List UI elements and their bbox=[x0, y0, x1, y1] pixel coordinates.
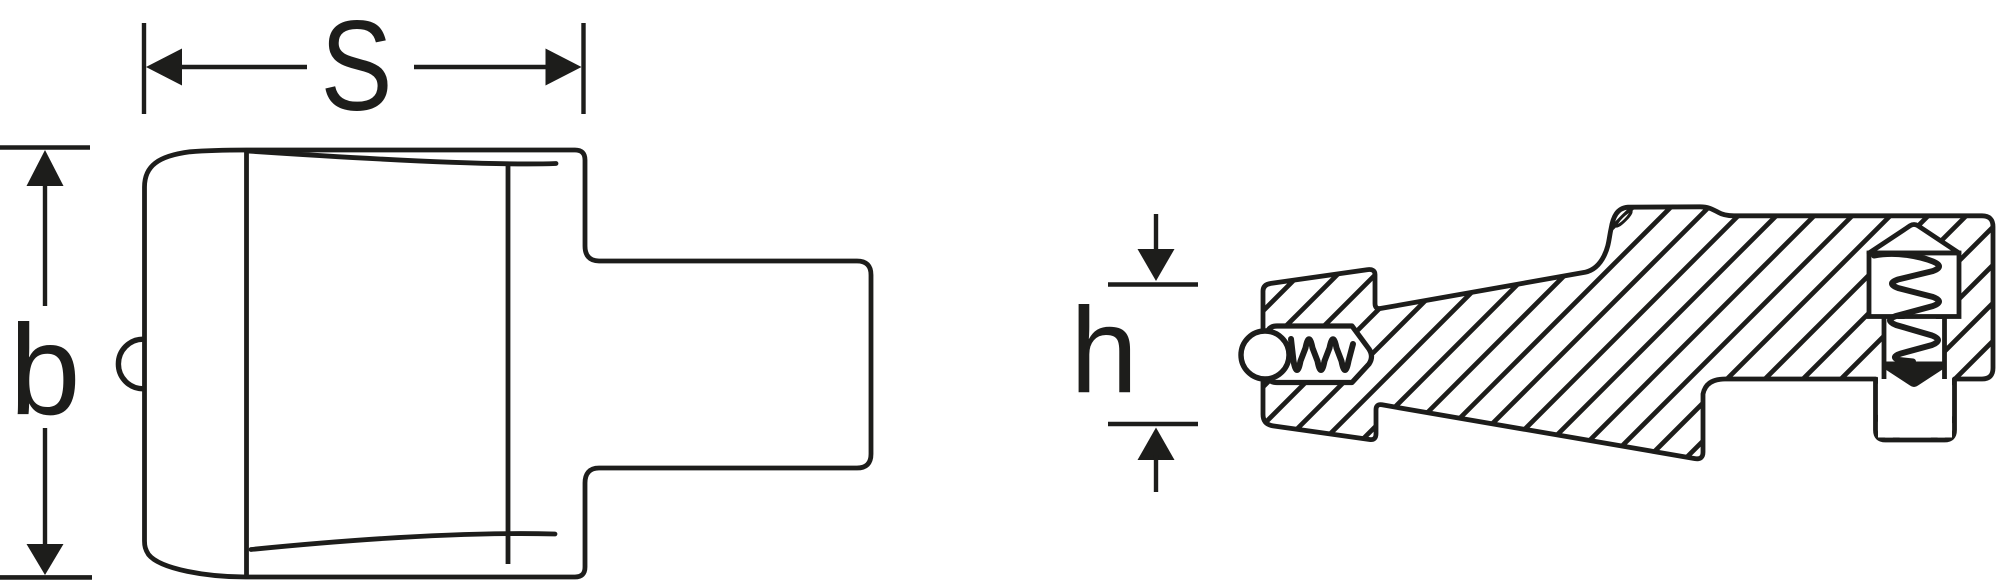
svg-text:b: b bbox=[9, 299, 80, 442]
inner vertical edge line 1 bbox=[244, 150, 249, 577]
dimension b bottom arrowhead bbox=[27, 544, 64, 575]
dimension S left arrow line bbox=[172, 65, 307, 69]
detent ball (side view, half circle on left edge) bbox=[118, 339, 168, 389]
spring bore roof (white pentagon top) bbox=[1869, 225, 1959, 254]
vertical spring coil bbox=[1874, 254, 1939, 362]
spring bore upper box bbox=[1869, 253, 1959, 317]
dimension S left arrowhead bbox=[146, 49, 182, 86]
dimension h lower line bbox=[1154, 455, 1158, 492]
spring bore lower box bbox=[1884, 319, 1945, 379]
svg-text:h: h bbox=[1070, 282, 1138, 418]
neck fillet loop bbox=[1614, 209, 1632, 227]
dimension h upper arrowhead (pointing down) bbox=[1138, 249, 1175, 281]
dimension b top tick bbox=[0, 145, 90, 150]
section body outline bbox=[1263, 207, 1993, 459]
detent ball pressed in seat (black triangle) bbox=[1884, 362, 1944, 388]
channel spring (horizontal coil) bbox=[1291, 339, 1353, 370]
dimension h upper line bbox=[1154, 214, 1158, 256]
dimension S right arrowhead bbox=[546, 49, 582, 86]
dimension S left extension line bbox=[142, 23, 146, 114]
ball channel pocket (white cutout with pointed end) bbox=[1267, 326, 1372, 383]
dimension h bottom tick bbox=[1108, 422, 1198, 427]
white cover over bottom tab (unsectioned detent housing) bbox=[1878, 372, 1952, 438]
dimension h lower arrowhead (pointing up) bbox=[1138, 428, 1175, 461]
detent ball (section, left) bbox=[1241, 331, 1289, 379]
adapter body outline (side view) bbox=[145, 150, 872, 577]
svg-text:S: S bbox=[321, 0, 393, 138]
dimension S right extension line bbox=[581, 23, 585, 114]
dimension b lower line bbox=[43, 428, 47, 548]
inner chamfer line top bbox=[247, 151, 556, 164]
inner chamfer line bottom bbox=[251, 534, 555, 550]
dimension S right arrow line bbox=[414, 65, 556, 69]
dimension h top tick bbox=[1108, 282, 1198, 287]
section hatching bbox=[1084, 128, 2000, 490]
dimension b upper line bbox=[43, 182, 47, 306]
inner vertical edge line 2 bbox=[506, 163, 511, 564]
dimension b top arrowhead bbox=[27, 150, 64, 186]
dimension b bottom tick bbox=[0, 575, 92, 580]
